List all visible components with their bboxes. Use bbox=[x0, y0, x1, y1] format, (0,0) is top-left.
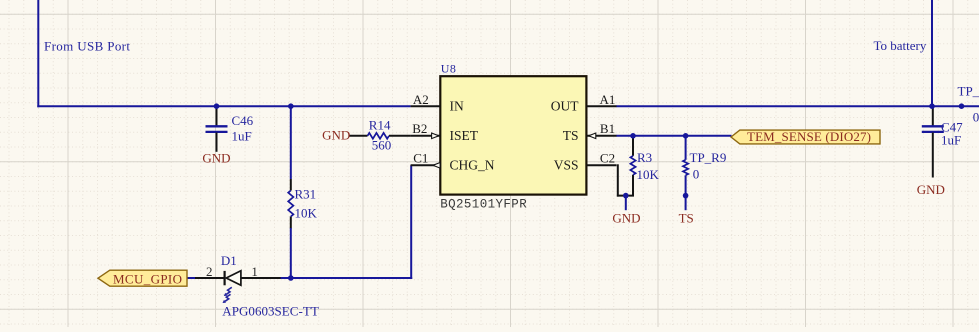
svg-text:BQ25101YFPR: BQ25101YFPR bbox=[440, 198, 527, 212]
svg-text:TP_: TP_ bbox=[958, 83, 979, 98]
svg-text:0: 0 bbox=[693, 167, 700, 182]
svg-text:1uF: 1uF bbox=[941, 133, 961, 148]
svg-text:TP_R9: TP_R9 bbox=[690, 150, 727, 165]
svg-text:OUT: OUT bbox=[551, 99, 579, 114]
svg-text:A1: A1 bbox=[600, 92, 616, 107]
svg-text:1uF: 1uF bbox=[232, 129, 252, 144]
svg-text:C46: C46 bbox=[232, 113, 254, 128]
svg-text:GND: GND bbox=[202, 151, 230, 166]
svg-text:10K: 10K bbox=[295, 205, 318, 220]
svg-text:10K: 10K bbox=[637, 167, 660, 182]
svg-text:R31: R31 bbox=[295, 187, 317, 202]
svg-text:TEM_SENSE (DIO27): TEM_SENSE (DIO27) bbox=[747, 129, 871, 144]
svg-text:B1: B1 bbox=[600, 121, 615, 136]
svg-text:GND: GND bbox=[917, 182, 945, 197]
svg-text:R3: R3 bbox=[637, 150, 652, 165]
svg-text:R14: R14 bbox=[369, 117, 391, 132]
svg-text:IN: IN bbox=[450, 99, 464, 114]
svg-text:VSS: VSS bbox=[554, 158, 579, 173]
svg-text:TS: TS bbox=[679, 210, 694, 225]
svg-text:GND: GND bbox=[322, 128, 350, 143]
svg-text:2: 2 bbox=[206, 264, 213, 279]
svg-text:C2: C2 bbox=[600, 151, 615, 166]
svg-text:C1: C1 bbox=[413, 151, 428, 166]
svg-text:A2: A2 bbox=[413, 92, 429, 107]
svg-text:D1: D1 bbox=[221, 253, 237, 268]
svg-text:B2: B2 bbox=[412, 121, 427, 136]
svg-text:CHG_N: CHG_N bbox=[450, 158, 495, 173]
svg-text:MCU_GPIO: MCU_GPIO bbox=[113, 271, 182, 286]
svg-text:560: 560 bbox=[372, 138, 392, 153]
svg-text:From USB Port: From USB Port bbox=[44, 39, 130, 54]
svg-text:0: 0 bbox=[973, 109, 979, 124]
svg-text:TS: TS bbox=[563, 128, 579, 143]
svg-text:1: 1 bbox=[251, 264, 258, 279]
svg-text:GND: GND bbox=[612, 210, 640, 225]
svg-text:U8: U8 bbox=[441, 62, 457, 76]
svg-text:ISET: ISET bbox=[450, 128, 479, 143]
svg-text:To battery: To battery bbox=[874, 38, 927, 53]
svg-text:APG0603SEC-TT: APG0603SEC-TT bbox=[222, 304, 319, 319]
